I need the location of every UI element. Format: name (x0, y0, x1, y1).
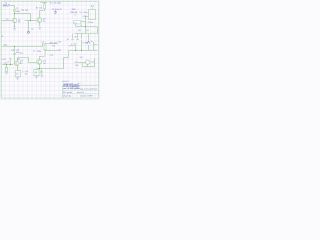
chain to rail C (75, 46, 77, 51)
junction node (14, 13, 15, 14)
divider 2 (63, 93, 99, 95)
ground bypass cap (40, 75, 43, 77)
wire Q1 base (2, 20, 12, 22)
rail A (76, 26, 98, 28)
bias resistor Q3 body (5, 68, 7, 72)
Q4 base line (29, 62, 37, 64)
svg-text:C4: C4 (31, 28, 33, 30)
rail B (75, 33, 98, 35)
capacitor C13 vertical (68, 51, 70, 58)
Q4 collector (40, 57, 45, 60)
svg-text:R8: R8 (78, 30, 80, 32)
out rail (83, 66, 95, 68)
svg-text:Vcc C8 100u: Vcc C8 100u (50, 2, 61, 4)
pot wiper down (87, 64, 89, 66)
svg-text:R5: R5 (36, 8, 38, 10)
drop right to rail (93, 42, 95, 51)
svg-text:10k: 10k (54, 43, 57, 45)
svg-text:C9: C9 (42, 42, 44, 44)
junction Q1 emitter (14, 26, 15, 27)
tick rail A left (75, 24, 77, 27)
svg-text:22k: 22k (52, 45, 55, 47)
Vcc rail (41, 2, 48, 4)
long left rail (2, 46, 42, 48)
wire cap to node (14, 12, 16, 19)
svg-text:R18: R18 (58, 50, 61, 52)
junction long rail (14, 46, 15, 47)
junction Q3 base (10, 64, 11, 65)
out rail mid (37, 68, 64, 70)
svg-text:R9: R9 (86, 30, 88, 32)
junction rail C 2 (75, 50, 76, 51)
bypass capacitor Q4 (40, 69, 43, 75)
svg-text:INPUT: INPUT (3, 6, 10, 8)
svg-text:100n: 100n (37, 51, 41, 53)
resistor box R13 (16, 71, 21, 77)
svg-text:10n: 10n (74, 43, 77, 45)
out vertical (94, 58, 96, 66)
junction rail A battery (85, 26, 86, 27)
svg-text:C13: C13 (58, 41, 61, 43)
Q3 emitter (17, 66, 19, 71)
svg-text:1k: 1k (35, 72, 37, 74)
sheet border frame (2, 2, 99, 99)
svg-text:C9: C9 (67, 39, 69, 41)
svg-text:100n: 100n (16, 11, 20, 13)
svg-text:drawn by: drawn by (63, 94, 71, 97)
right edge wire A to B (97, 27, 99, 34)
wire Q2 collector up (40, 11, 45, 18)
junction bias (6, 64, 7, 65)
svg-text:gEDA 1.8: gEDA 1.8 (62, 80, 69, 83)
stub left of out rail (82, 63, 84, 66)
svg-text:C1: C1 (16, 8, 18, 10)
resistor R9 vertical (85, 27, 87, 34)
transistor Q1 (12, 18, 17, 23)
junction rail C 1 (81, 50, 82, 51)
transistor Q2 (37, 18, 42, 23)
wire bus collector Q1 to Q2 base (15, 13, 31, 15)
wire input vertical (14, 6, 16, 10)
svg-text:C7: C7 (33, 51, 35, 53)
bend long rail to component (43, 44, 46, 47)
vol feed wire (78, 62, 85, 64)
svg-text:SW1: SW1 (72, 9, 76, 11)
diode D1 box (74, 21, 81, 24)
transistor Q4 (37, 59, 42, 64)
junction Q2 base (30, 20, 31, 21)
svg-text:R10: R10 (4, 44, 7, 46)
svg-text:C8 100u 25: C8 100u 25 (52, 9, 62, 11)
svg-text:+9: +9 (80, 25, 82, 27)
svg-text:100k: 100k (75, 65, 79, 67)
resistor box R16 (34, 69, 39, 75)
svg-text:R12: R12 (3, 59, 6, 61)
svg-text:rev 1.0 2021 gEDA: rev 1.0 2021 gEDA (63, 87, 80, 90)
wire Q2 emitter (39, 22, 41, 26)
capacitor C1 (13, 10, 16, 11)
Q3 collector rail (18, 58, 29, 63)
svg-text:C13: C13 (50, 55, 53, 57)
svg-text:1k: 1k (16, 73, 18, 75)
Q4 emitter (39, 64, 41, 68)
grid (0, 0, 100, 100)
wire Q2 base (25, 20, 37, 22)
transistor Q3 (15, 61, 20, 66)
resistor drop mid (81, 34, 83, 51)
rail C (69, 50, 98, 52)
ground R16 (35, 77, 38, 79)
divider 1 (63, 89, 99, 91)
wire input horizontal (9, 5, 14, 7)
wire switch to battery (81, 21, 86, 23)
svg-text:9V bat: 9V bat (88, 21, 94, 24)
ground bias (5, 73, 8, 75)
svg-text:C12: C12 (17, 59, 20, 61)
svg-text:R15: R15 (20, 53, 23, 55)
svg-text:R17: R17 (50, 43, 53, 45)
link box to collector (44, 50, 46, 57)
stem to resistor box R16 (36, 68, 38, 71)
trimmer body (28, 31, 30, 33)
svg-text:VOL: VOL (80, 57, 84, 59)
bias resistor Q3 stem (6, 65, 8, 68)
stub to drop (64, 57, 69, 59)
svg-text:C4: C4 (5, 3, 7, 5)
capacitor hang 2 (76, 34, 79, 40)
wire battery down (85, 17, 87, 27)
wire down to trimmer (28, 21, 30, 32)
svg-text:a1: a1 (1, 36, 3, 38)
sheet background (0, 0, 100, 100)
svg-text:ON/OFF: ON/OFF (70, 12, 78, 14)
ground Q2 (38, 28, 41, 30)
ground R13 (16, 78, 19, 80)
wire drop to Q2 base (30, 14, 32, 21)
rail mid upper (45, 43, 58, 45)
svg-text:RV1: RV1 (75, 62, 78, 64)
rail mid lower (45, 49, 58, 52)
tone pot wiper arrow (87, 41, 90, 44)
connector J2 box (89, 10, 96, 20)
capacitor C8 (54, 10, 57, 14)
svg-text:1M: 1M (25, 10, 28, 12)
stub right border (94, 44, 98, 46)
junction Q4 emitter (39, 68, 40, 69)
svg-text:R11: R11 (11, 50, 14, 52)
title block left edge (62, 85, 64, 98)
capacitor C10 series (13, 47, 16, 65)
svg-text:10k: 10k (39, 8, 42, 10)
wire Q1 emitter (14, 23, 16, 27)
pin stubs (86, 13, 89, 17)
svg-text:C7: C7 (69, 45, 71, 47)
svg-text:C2: C2 (6, 18, 8, 20)
drop to out rail (63, 58, 65, 69)
svg-text:version 1 1999: version 1 1999 (80, 94, 92, 97)
ground Q1 (13, 28, 16, 30)
resistor R5 (44, 4, 46, 9)
capacitor hang 1 (71, 34, 74, 40)
title block top line (63, 84, 99, 86)
vol pot circle (85, 60, 89, 64)
chain capacitor segment (72, 43, 76, 45)
Q3 base line (2, 64, 13, 66)
vertical above base (9, 58, 11, 64)
svg-text:R3: R3 (22, 10, 24, 12)
tone pot stem (88, 34, 90, 51)
svg-text:10u: 10u (25, 74, 28, 76)
resistor box mid (44, 45, 46, 50)
svg-text:C6: C6 (74, 37, 76, 39)
